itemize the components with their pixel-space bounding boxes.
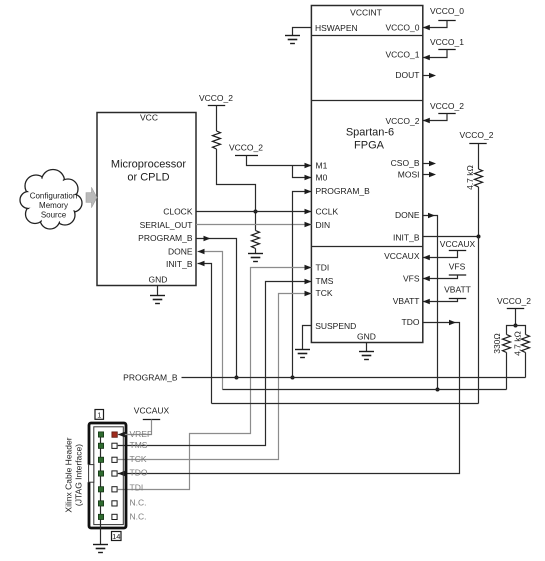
junction DONE vertical on bus <box>436 388 440 392</box>
header pin square GND row7 <box>98 514 103 519</box>
svg-text:DONE: DONE <box>168 247 193 257</box>
header pin square GND row3 <box>98 457 103 462</box>
FPGA internal divider 2 <box>311 100 422 102</box>
wire VCCO_2 to M1 <box>247 156 312 166</box>
wire VBATT to pin <box>423 299 458 302</box>
header pin square VREF (red) <box>112 432 117 437</box>
header pin square GND row6 <box>98 501 103 506</box>
arrow out of CSO_B <box>429 161 436 167</box>
svg-text:GND: GND <box>357 332 376 342</box>
JTAG header J1 outer body <box>89 423 126 528</box>
svg-text:1: 1 <box>97 411 101 420</box>
wire VFS to pin <box>423 275 458 279</box>
svg-text:CCLK: CCLK <box>316 206 339 216</box>
svg-text:14: 14 <box>112 532 120 541</box>
wire VCCO_2 to resistor R1 <box>478 144 480 170</box>
wire INIT_B bus <box>212 403 479 405</box>
wire R1 bottom to INIT_B line <box>478 187 480 237</box>
pin number 1 box <box>95 410 104 420</box>
JTAG header inner frame <box>94 427 124 525</box>
wire TCK from header <box>118 294 312 460</box>
micro title Microprocessor or CPLD <box>111 159 187 184</box>
svg-text:PROGRAM_B: PROGRAM_B <box>138 233 193 243</box>
svg-text:VCCAUX: VCCAUX <box>440 239 476 249</box>
svg-text:VCCO_2: VCCO_2 <box>459 130 493 140</box>
wire micro INIT_B from INIT_B bus <box>198 264 212 404</box>
arrow into header TDO pin <box>118 471 125 477</box>
header title Xilinx Cable Header (JTAG Interface) <box>64 437 84 512</box>
arrow into FPGA TMS <box>305 279 312 285</box>
arrow out of DOUT <box>429 73 436 79</box>
wire FPGA GND pin <box>366 343 368 352</box>
arrow into VREF pin <box>118 432 125 438</box>
arrow out of MOSI <box>429 172 436 178</box>
wire SUSPEND to ground <box>303 326 312 350</box>
svg-text:VCCAUX: VCCAUX <box>134 406 170 416</box>
arrow out of TDO <box>449 320 456 326</box>
svg-text:HSWAPEN: HSWAPEN <box>315 23 358 33</box>
resistor R2 330 Ohm (DONE pull-up) <box>503 335 511 353</box>
JTAG header ground rail through pins <box>100 435 102 545</box>
power symbol VFS <box>449 262 466 276</box>
svg-text:SERIAL_OUT: SERIAL_OUT <box>140 220 193 230</box>
resistor R3 4.7k (PROGRAM_B pull-up) <box>522 335 530 353</box>
junction micro PROGRAM_B on bus <box>235 376 239 380</box>
power symbol VCCAUX (header VREF) <box>134 406 170 420</box>
svg-text:Source: Source <box>41 210 67 219</box>
power symbol VCCO_1 <box>430 37 464 50</box>
svg-text:VCCAUX: VCCAUX <box>384 251 420 261</box>
svg-text:or CPLD: or CPLD <box>127 172 169 184</box>
wire R2 bottom to DONE bus <box>506 353 508 390</box>
wire R5 bottom to ground <box>255 249 257 254</box>
svg-text:FPGA: FPGA <box>354 140 385 152</box>
svg-text:VCCO_0: VCCO_0 <box>385 23 419 33</box>
svg-text:VCCO_2: VCCO_2 <box>497 296 531 306</box>
ground at FPGA GND <box>359 352 374 360</box>
power symbol VCCO_2 (M1/M0) <box>229 143 263 156</box>
svg-text:DIN: DIN <box>316 220 331 230</box>
header pin square TMS <box>112 443 117 448</box>
svg-text:VFS: VFS <box>449 262 466 272</box>
wire VCCAUX to pin <box>423 251 458 258</box>
svg-text:VBATT: VBATT <box>444 285 471 295</box>
ground (CCLK termination) <box>248 254 263 262</box>
svg-text:TMS: TMS <box>316 276 334 286</box>
svg-text:PROGRAM_B: PROGRAM_B <box>316 186 371 196</box>
block arrow from cloud to microprocessor <box>86 187 97 207</box>
svg-text:TDO: TDO <box>130 467 148 477</box>
svg-text:VCCO_2: VCCO_2 <box>385 116 419 126</box>
arrow into VCCAUX <box>423 255 430 261</box>
wire VCCO_2 bar to resistor R4 <box>216 106 218 132</box>
svg-text:VCCO_1: VCCO_1 <box>385 50 419 60</box>
header pin square GND row1 <box>98 432 103 437</box>
power symbol VBATT <box>444 285 471 299</box>
arrow into FPGA PROGRAM_B <box>305 189 312 195</box>
wire VCCAUX to VREF pin <box>118 420 152 435</box>
wire TDI from header (jog route) <box>118 268 312 490</box>
svg-text:TDI: TDI <box>130 482 144 492</box>
cloud: Configuration Memory Source <box>20 170 82 230</box>
wire CLOCK to CCLK <box>196 211 312 213</box>
svg-text:CLOCK: CLOCK <box>163 206 193 216</box>
junction INIT_B node <box>477 235 481 239</box>
wire SERIAL_OUT to DIN <box>196 224 312 226</box>
FPGA internal divider 1 <box>311 35 422 37</box>
wire MOSI output <box>423 174 434 176</box>
svg-text:Microprocessor: Microprocessor <box>111 159 187 171</box>
svg-text:Memory: Memory <box>39 201 68 210</box>
power symbol VCCO_2 (DONE/PROGRAM_B pull-ups) <box>497 296 531 309</box>
arrow into VFS <box>423 276 430 282</box>
ground at SUSPEND <box>295 350 310 358</box>
resistor R4 (CCLK termination pull-up) <box>213 131 221 149</box>
wire INIT_B vertical down to bus 3 <box>478 237 480 404</box>
ground symbol at HSWAPEN <box>285 28 311 44</box>
svg-text:VCCO_2: VCCO_2 <box>199 93 233 103</box>
power symbol VCCAUX (right) <box>440 239 476 251</box>
arrow into micro INIT_B <box>198 261 205 267</box>
svg-text:VFS: VFS <box>403 274 420 284</box>
svg-text:M0: M0 <box>316 173 328 183</box>
svg-text:VCC: VCC <box>140 113 158 123</box>
svg-text:INIT_B: INIT_B <box>393 233 420 243</box>
arrow into M1 <box>305 163 312 169</box>
svg-text:TMS: TMS <box>130 440 148 450</box>
svg-text:MOSI: MOSI <box>398 170 420 180</box>
svg-text:VCCO_0: VCCO_0 <box>430 6 464 16</box>
wire DOUT output <box>423 75 434 77</box>
wire resistor pair top bar <box>507 326 526 335</box>
svg-text:VREF: VREF <box>130 429 153 439</box>
svg-text:DONE: DONE <box>395 210 420 220</box>
svg-text:VCCINT: VCCINT <box>350 8 382 18</box>
svg-text:(JTAG Interface): (JTAG Interface) <box>74 444 84 506</box>
arrow into micro DONE <box>198 249 205 255</box>
arrow into VBATT <box>423 299 430 305</box>
junction FPGA PROGRAM_B on bus <box>291 376 295 380</box>
wire micro PROGRAM_B down to PROGRAM_B bus <box>196 239 237 378</box>
power symbol VCCO_2 (bank 2) <box>430 101 464 114</box>
ground at micro GND <box>150 296 165 304</box>
svg-text:CSO_B: CSO_B <box>391 158 420 168</box>
header pin square GND row4 <box>98 471 103 476</box>
header pin square TCK <box>112 457 117 462</box>
svg-text:VCCO_2: VCCO_2 <box>229 143 263 153</box>
header pin square GND row2 <box>98 443 103 448</box>
arrow out of micro PROGRAM_B <box>204 236 211 242</box>
header pin square NC row6 <box>112 501 117 506</box>
resistor R5 (CCLK termination pull-down) <box>252 231 260 249</box>
pin number 14 box <box>112 532 122 542</box>
svg-text:GND: GND <box>149 275 168 285</box>
wire FPGA PROGRAM_B down to bus <box>293 192 312 378</box>
FPGA title Spartan-6 FPGA <box>346 127 394 152</box>
svg-text:INIT_B: INIT_B <box>166 259 193 269</box>
svg-text:TDO: TDO <box>402 317 420 327</box>
power symbol VCCO_0 <box>430 6 464 21</box>
header pin square NC row7 <box>112 514 117 519</box>
header pin square TDO <box>112 471 117 476</box>
header pin square GND row5 <box>98 487 103 492</box>
svg-text:DOUT: DOUT <box>395 70 419 80</box>
arrow into FPGA TDI <box>305 265 312 271</box>
svg-text:PROGRAM_B: PROGRAM_B <box>123 372 178 382</box>
svg-text:VCCO_1: VCCO_1 <box>430 37 464 47</box>
JTAG header polarization notch <box>86 465 94 483</box>
wire micro DONE from DONE bus <box>198 252 223 390</box>
svg-text:4.7 kΩ: 4.7 kΩ <box>513 331 523 356</box>
FPGA internal divider 3 <box>311 246 422 248</box>
svg-text:TCK: TCK <box>316 288 333 298</box>
svg-text:VBATT: VBATT <box>393 296 420 306</box>
svg-text:Configuration: Configuration <box>30 191 78 200</box>
wire VCCO_2 to pin <box>423 114 447 121</box>
microprocessor U2 body <box>97 113 196 286</box>
junction on CCLK line <box>254 210 258 214</box>
arrow into VCCO_1 <box>423 55 430 61</box>
arrow into FPGA TCK <box>305 291 312 297</box>
arrow into CCLK <box>305 209 312 215</box>
svg-text:SUSPEND: SUSPEND <box>315 321 356 331</box>
wire INIT_B from pin <box>423 236 479 238</box>
svg-text:330Ω: 330Ω <box>492 333 502 354</box>
arrow into DIN <box>305 222 312 228</box>
power symbol VCCO_2 (CCLK termination) <box>199 93 233 106</box>
ground at JTAG header <box>93 545 108 553</box>
svg-text:TDI: TDI <box>316 263 330 273</box>
wire VCCO_1 to pin <box>423 50 447 58</box>
arrow into M0 <box>305 175 312 181</box>
wire TMS from header <box>118 282 312 446</box>
arrow out of DONE <box>428 213 435 219</box>
svg-text:M1: M1 <box>316 161 328 171</box>
arrow into VCCO_2 <box>423 118 430 124</box>
arrow into VCCO_0 <box>423 25 430 31</box>
wire R3 bottom to PROGRAM_B bus <box>525 353 527 378</box>
wire DONE bus <box>223 389 507 391</box>
resistor R1 4.7k INIT_B pull-up <box>475 169 483 187</box>
wire micro GND pin <box>157 286 159 296</box>
wire TDO output down to header TDO row <box>118 323 460 474</box>
wire branch to M0 <box>293 166 312 178</box>
svg-text:N.C.: N.C. <box>130 512 147 522</box>
wire CSO_B output <box>423 163 434 165</box>
FPGA U1 Spartan-6 body <box>311 6 422 343</box>
wire DONE output down to DONE bus <box>423 216 438 390</box>
wire R4 bottom, right, down to CCLK node <box>217 149 256 231</box>
power symbol VCCO_2 (INIT_B pull-up) <box>459 130 493 144</box>
svg-text:Xilinx Cable Header: Xilinx Cable Header <box>64 437 74 512</box>
svg-text:N.C.: N.C. <box>130 498 147 508</box>
svg-text:4.7 kΩ: 4.7 kΩ <box>465 165 475 190</box>
svg-text:TCK: TCK <box>130 454 147 464</box>
wire VCCO_0 to pin <box>423 21 447 28</box>
header pin square TDI <box>112 487 117 492</box>
wire VCCO_2 down to resistor pair bar <box>515 309 517 326</box>
junction on resistor pair bar <box>514 324 518 328</box>
svg-text:Spartan-6: Spartan-6 <box>346 127 394 139</box>
wire PROGRAM_B bus <box>182 377 526 379</box>
svg-text:VCCO_2: VCCO_2 <box>430 101 464 111</box>
